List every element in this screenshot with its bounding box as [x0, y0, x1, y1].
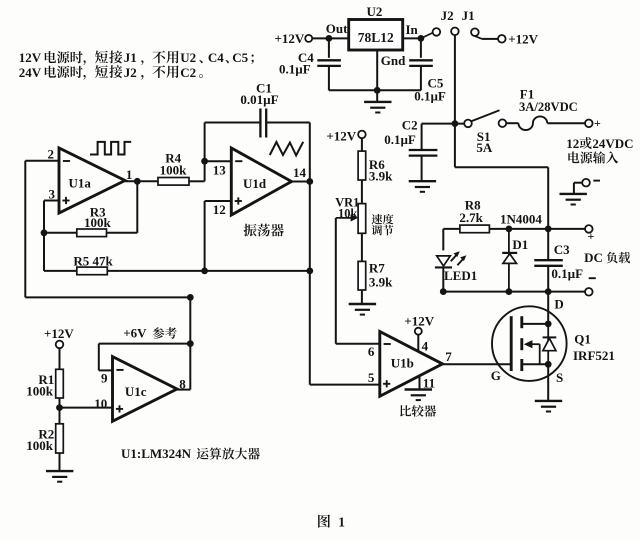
- wire reference node horizontal: [25, 296, 190, 298]
- svg-text:+12V: +12V: [275, 31, 305, 46]
- svg-text:14: 14: [293, 165, 307, 180]
- op-amp U1b: [380, 332, 443, 397]
- regulator U2 78L12 box: [349, 20, 403, 51]
- wire pin10: [60, 407, 113, 409]
- wire J1 to +12V: [475, 36, 482, 39]
- svg-text:C2: C2: [402, 118, 418, 133]
- svg-text:24VDC: 24VDC: [592, 136, 633, 151]
- junction R3 left: [41, 229, 48, 236]
- svg-text:R7: R7: [369, 261, 385, 276]
- wire minus to ground: [573, 183, 575, 194]
- wire C4 top: [328, 38, 330, 57]
- wire U1c output: [177, 389, 190, 391]
- svg-text:6: 6: [368, 344, 375, 359]
- svg-text:R5 47k: R5 47k: [73, 253, 113, 268]
- svg-text:13: 13: [213, 162, 227, 177]
- wire pin3: [44, 200, 59, 202]
- node U1a output junction: [134, 178, 141, 185]
- wire C5 bottom: [420, 66, 422, 90]
- wire R7 to ground: [361, 290, 363, 304]
- resistor R8: [460, 225, 490, 233]
- label power input: [568, 151, 618, 163]
- svg-text:Gnd: Gnd: [381, 53, 406, 68]
- wire pin3 vertical: [43, 201, 45, 271]
- wire S1 to F1: [506, 122, 518, 124]
- junction C4 top: [326, 35, 333, 42]
- junction D1 bottom: [506, 288, 513, 295]
- svg-text:C3: C3: [554, 242, 570, 257]
- wire minus rail: [443, 291, 585, 293]
- VR1 wiper arrow: [336, 217, 352, 219]
- fuse F1: [519, 116, 548, 130]
- terminal battery plus: [585, 120, 593, 128]
- terminal load minus: [585, 288, 593, 296]
- wire pin13: [205, 160, 232, 162]
- junction S1 node: [452, 120, 459, 127]
- wire minus terminal: [574, 182, 582, 184]
- svg-text:+12V: +12V: [508, 31, 538, 46]
- wire drain vertical: [547, 292, 549, 324]
- potentiometer VR1: [358, 204, 366, 234]
- terminal battery minus: [582, 179, 590, 187]
- wire +6V feedback: [99, 343, 191, 345]
- body diode Q1: [547, 324, 549, 364]
- svg-text:C4: C4: [208, 50, 224, 65]
- svg-text:1: 1: [126, 167, 132, 182]
- svg-text:2: 2: [48, 147, 55, 162]
- wire U1b output to gate: [443, 363, 511, 365]
- svg-text:DC: DC: [584, 250, 603, 265]
- wire pin2: [25, 160, 59, 162]
- svg-text:Out: Out: [326, 21, 348, 36]
- wire VR1 to R7: [361, 233, 363, 261]
- wire R3 right: [107, 232, 138, 234]
- svg-text:0.1µF: 0.1µF: [551, 266, 583, 281]
- wire C4 bottom: [328, 66, 330, 90]
- diode D1: [508, 229, 510, 292]
- svg-text:J2: J2: [124, 65, 137, 80]
- wire pin4: [417, 335, 419, 352]
- wire across to load column: [455, 166, 548, 168]
- wire C1 right: [266, 122, 310, 124]
- op-amp U1d: [231, 148, 291, 215]
- svg-text:1N4004: 1N4004: [500, 211, 542, 226]
- resistor R2: [56, 424, 64, 453]
- wire pin5: [310, 384, 380, 386]
- terminal +12V U2: [305, 35, 312, 42]
- wire R5 right to U1d output node: [107, 270, 309, 272]
- svg-text:0.1µF: 0.1µF: [414, 89, 446, 104]
- svg-text:12V: 12V: [19, 50, 42, 65]
- wire C2 top vertical: [421, 124, 423, 150]
- wire R4 to node: [189, 180, 205, 182]
- svg-text:9: 9: [101, 371, 108, 386]
- svg-text:0.1µF: 0.1µF: [279, 62, 311, 77]
- wire ground bus U2: [329, 89, 421, 91]
- svg-text:C2: C2: [180, 65, 196, 80]
- wire down to plus rail: [547, 167, 549, 229]
- ground R7: [349, 304, 376, 315]
- terminal +12V U1b: [415, 328, 422, 335]
- capacitor C2: [409, 150, 438, 156]
- capacitor C5: [409, 60, 433, 66]
- ground R2: [46, 471, 73, 482]
- ground source: [535, 401, 562, 412]
- jumper J2 terminal A: [433, 28, 441, 36]
- junction D1 top: [506, 226, 513, 233]
- svg-text:24V: 24V: [19, 65, 42, 80]
- wire U1a output: [125, 180, 158, 182]
- svg-text:5A: 5A: [476, 140, 493, 155]
- svg-text:C5: C5: [232, 50, 248, 65]
- resistor R3: [77, 229, 107, 237]
- wire C2 bottom: [421, 156, 423, 182]
- svg-text:U2: U2: [367, 4, 383, 19]
- label load minus: [589, 277, 596, 279]
- op-amp U1c: [113, 357, 178, 422]
- wire R1 to R2: [59, 398, 61, 424]
- svg-text:4: 4: [422, 339, 429, 354]
- wire LED bottom: [442, 267, 444, 291]
- svg-text:U2: U2: [180, 50, 196, 65]
- wire R5 left: [44, 270, 77, 272]
- wire R2 to ground: [59, 453, 61, 471]
- capacitor C4: [317, 60, 341, 66]
- svg-text:7: 7: [445, 349, 452, 364]
- svg-text:2.7k: 2.7k: [459, 210, 483, 225]
- junction pin12 on R5 wire: [201, 268, 208, 275]
- wire to R6: [361, 138, 363, 151]
- label comparator: [400, 405, 436, 417]
- svg-text:G: G: [491, 368, 501, 383]
- jumper J2/J1 terminal B: [451, 28, 459, 36]
- wire to +12V terminal: [482, 38, 498, 40]
- junction C5 top: [418, 35, 425, 42]
- svg-text:3: 3: [49, 186, 56, 201]
- wire drain internal: [522, 323, 548, 325]
- svg-text:12: 12: [213, 202, 226, 217]
- label speed: [372, 214, 394, 225]
- wire pin12 vertical: [204, 201, 206, 271]
- svg-text:IRF521: IRF521: [573, 348, 615, 363]
- wire C5 top: [420, 38, 422, 57]
- svg-text:+12V: +12V: [44, 326, 74, 341]
- wire C1 left: [205, 122, 260, 124]
- label minus battery: [593, 180, 600, 182]
- wire to J2: [421, 33, 433, 39]
- jumper J1 terminal C: [471, 28, 479, 36]
- ground U2: [364, 102, 391, 113]
- label operational amplifier: [197, 448, 260, 460]
- svg-text:0.1µF: 0.1µF: [384, 132, 416, 147]
- terminal +12V R1: [56, 341, 64, 349]
- wire pin9: [99, 369, 113, 371]
- svg-text:+: +: [588, 229, 595, 243]
- svg-text:J1: J1: [462, 8, 475, 23]
- ground C2: [409, 181, 436, 192]
- resistor R5: [77, 267, 108, 275]
- resistor R1: [56, 369, 64, 398]
- svg-text:D: D: [554, 296, 563, 311]
- svg-text:U1d: U1d: [243, 176, 267, 191]
- label reference: [153, 327, 177, 339]
- wire U1d output: [292, 181, 310, 183]
- svg-text:LED1: LED1: [444, 268, 477, 283]
- svg-text:U1a: U1a: [69, 175, 92, 190]
- junction source: [545, 361, 552, 368]
- svg-text:10: 10: [94, 396, 107, 411]
- terminal load plus: [585, 225, 593, 233]
- capacitor C1: [260, 109, 266, 138]
- svg-text:Q1: Q1: [574, 331, 591, 346]
- junction C3 bottom: [545, 288, 552, 295]
- junction LED bottom: [440, 288, 447, 295]
- wire C1 left vertical: [204, 123, 206, 182]
- switch S1: [464, 110, 506, 127]
- terminal +12V J1: [498, 35, 506, 43]
- junction +6V node: [187, 340, 194, 347]
- LED1: [437, 256, 451, 266]
- svg-text:+12V: +12V: [404, 313, 434, 328]
- junction C3 top: [545, 226, 552, 233]
- wire Gnd vertical: [376, 50, 378, 102]
- wire U1d output vertical long: [309, 123, 311, 385]
- wire R6 to VR1: [361, 180, 363, 204]
- resistor R4: [158, 178, 189, 186]
- wire pin11: [419, 376, 421, 390]
- wire pin2 vertical: [24, 161, 26, 298]
- svg-text:J2: J2: [441, 8, 454, 23]
- wire pin12: [205, 200, 232, 202]
- wire +12V to U2: [312, 37, 349, 39]
- svg-text:78L12: 78L12: [358, 30, 394, 45]
- svg-text:100k: 100k: [26, 383, 54, 398]
- junction R1 R2: [56, 404, 63, 411]
- wire source to ground: [547, 364, 549, 401]
- transistor Q1 MOSFET: [492, 306, 567, 381]
- svg-text:100k: 100k: [26, 438, 54, 453]
- wire ref node vertical: [189, 297, 191, 389]
- wire C3 bottom: [547, 266, 549, 292]
- wire S1 node down: [454, 124, 456, 168]
- svg-text:In: In: [406, 22, 419, 37]
- junction drain: [545, 321, 552, 328]
- svg-text:100k: 100k: [160, 163, 188, 178]
- junction U1d output column: [306, 268, 313, 275]
- wire F1 to battery terminal: [547, 122, 585, 124]
- triangle wave symbol: [270, 142, 303, 156]
- svg-text:12: 12: [566, 136, 579, 151]
- svg-text:3.9k: 3.9k: [369, 168, 393, 183]
- wire source internal: [522, 363, 548, 365]
- svg-text:U1c: U1c: [125, 384, 147, 399]
- ground battery minus: [560, 194, 587, 205]
- svg-text:U1b: U1b: [391, 355, 414, 370]
- wire In: [403, 37, 421, 39]
- junction U1d output: [306, 178, 313, 185]
- node pin13 junction: [201, 158, 208, 165]
- svg-text:3.9k: 3.9k: [369, 275, 393, 290]
- svg-text:U1:LM324N: U1:LM324N: [121, 446, 192, 461]
- wire C3 top: [547, 229, 549, 260]
- svg-text:+6V: +6V: [123, 325, 147, 340]
- square wave symbol: [90, 142, 131, 155]
- wire pin9 vertical: [98, 344, 100, 371]
- ground U1b pin11: [405, 390, 432, 401]
- junction ref node: [187, 294, 194, 301]
- wire to R1: [59, 348, 61, 369]
- wire LED top: [442, 229, 444, 251]
- svg-text:100k: 100k: [84, 215, 112, 230]
- svg-text:+: +: [594, 116, 601, 130]
- label adjust: [372, 225, 394, 236]
- op-amp U1a: [59, 148, 125, 213]
- svg-text:1: 1: [338, 514, 345, 529]
- wire wiper vertical: [335, 218, 337, 344]
- resistor R7: [358, 261, 366, 290]
- svg-text:3A/28VDC: 3A/28VDC: [519, 100, 578, 114]
- wire pin6: [336, 343, 380, 345]
- svg-text:J1: J1: [124, 50, 137, 65]
- terminal +12V VR chain: [358, 131, 366, 139]
- wire plus rail: [443, 228, 585, 230]
- svg-text:S: S: [556, 370, 563, 385]
- label oscillator: [244, 224, 284, 237]
- wire R3 to output: [136, 181, 138, 233]
- wire C2 to S1: [422, 123, 465, 125]
- svg-text:+12V: +12V: [326, 129, 356, 144]
- wire jumper node vertical: [454, 35, 456, 123]
- caption figure 1: [318, 515, 330, 528]
- wire R3 left: [44, 232, 77, 234]
- svg-text:0.01µF: 0.01µF: [240, 92, 278, 107]
- svg-text:5: 5: [368, 370, 375, 385]
- Q1 substrate arrow: [532, 343, 540, 345]
- svg-text:D1: D1: [512, 237, 528, 252]
- junction U2 ground: [374, 87, 381, 94]
- resistor R6: [358, 151, 366, 180]
